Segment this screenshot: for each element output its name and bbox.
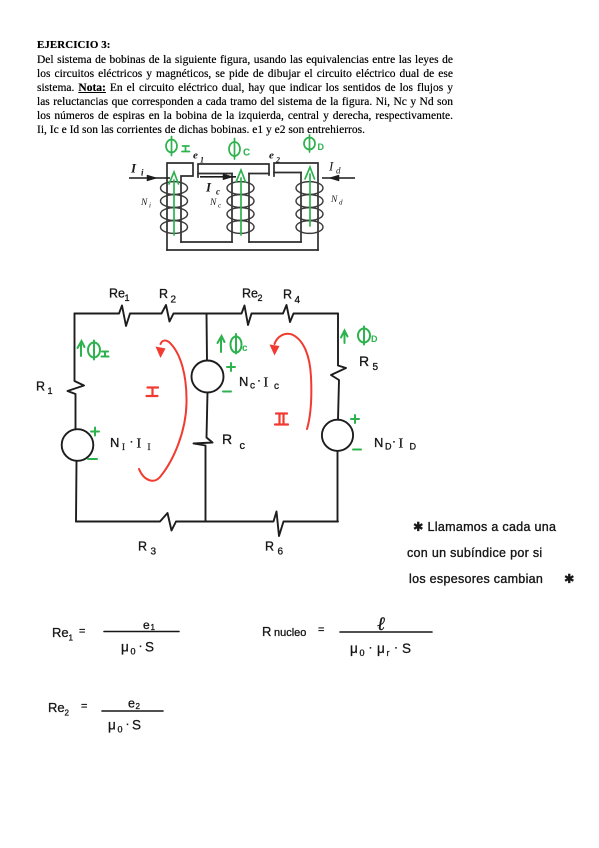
svg-text:c: c	[242, 343, 248, 354]
svg-text:I: I	[264, 376, 269, 391]
svg-text:e: e	[269, 150, 274, 162]
svg-text:·: ·	[369, 640, 373, 654]
svg-text:c: c	[216, 187, 220, 197]
svg-text:R: R	[283, 288, 292, 302]
svg-text:✱ Llamamos a cada una: ✱ Llamamos a cada una	[413, 520, 556, 534]
svg-text:S: S	[145, 640, 154, 655]
svg-text:=: =	[318, 624, 324, 636]
svg-text:1: 1	[48, 386, 53, 396]
svg-text:·: ·	[257, 373, 261, 387]
svg-text:r: r	[387, 648, 390, 658]
svg-text:S: S	[132, 718, 141, 733]
svg-text:N: N	[374, 435, 383, 450]
svg-text:c: c	[274, 381, 279, 392]
svg-text:R: R	[138, 540, 147, 554]
svg-text:2: 2	[171, 295, 177, 306]
svg-text:2: 2	[275, 156, 280, 165]
svg-text:I: I	[130, 161, 137, 176]
svg-text:μ: μ	[377, 641, 385, 656]
svg-text:i: i	[149, 202, 151, 210]
svg-text:0: 0	[131, 647, 136, 657]
svg-text:D: D	[318, 142, 325, 152]
svg-text:·: ·	[126, 717, 130, 731]
svg-text:los espesores cambian: los espesores cambian	[409, 572, 543, 586]
svg-text:·: ·	[139, 639, 143, 653]
svg-text:e: e	[143, 618, 150, 632]
svg-text:I: I	[205, 180, 212, 195]
svg-text:Re: Re	[52, 625, 69, 640]
svg-text:R: R	[359, 353, 369, 369]
svg-text:D: D	[385, 442, 392, 452]
svg-text:Re: Re	[109, 287, 125, 301]
svg-text:·: ·	[394, 640, 398, 654]
svg-text:i: i	[141, 168, 144, 178]
svg-text:C: C	[243, 148, 250, 159]
svg-text:2: 2	[136, 702, 141, 711]
svg-text:N: N	[140, 198, 148, 208]
svg-text:R: R	[265, 540, 274, 554]
svg-text:e: e	[193, 150, 198, 162]
svg-text:1: 1	[200, 156, 204, 165]
svg-text:N: N	[330, 195, 338, 205]
svg-text:N: N	[110, 435, 119, 450]
svg-text:0: 0	[360, 648, 365, 658]
svg-text:2: 2	[258, 293, 263, 303]
svg-text:μ: μ	[108, 718, 116, 733]
svg-text:I: I	[328, 159, 334, 174]
svg-text:=: =	[81, 701, 87, 713]
svg-text:I: I	[148, 442, 151, 452]
svg-text:Re: Re	[242, 287, 258, 301]
svg-text:I: I	[137, 437, 142, 452]
svg-text:·: ·	[392, 434, 396, 448]
svg-text:6: 6	[278, 547, 284, 558]
svg-text:=: =	[79, 626, 85, 638]
svg-text:N: N	[209, 198, 217, 208]
svg-text:R: R	[36, 380, 45, 394]
svg-text:✱: ✱	[564, 572, 575, 586]
svg-text:μ: μ	[350, 641, 358, 656]
svg-text:c: c	[250, 381, 255, 392]
svg-text:nucleo: nucleo	[274, 627, 306, 639]
svg-text:5: 5	[373, 362, 379, 373]
svg-text:R: R	[222, 431, 232, 447]
svg-text:N: N	[239, 374, 248, 389]
svg-text:3: 3	[151, 547, 157, 558]
svg-text:d: d	[339, 199, 343, 207]
svg-text:D: D	[371, 334, 378, 344]
svg-text:·: ·	[130, 434, 134, 448]
svg-text:R: R	[262, 624, 271, 639]
svg-text:D: D	[410, 442, 417, 452]
svg-text:con un subíndice por si: con un subíndice por si	[407, 546, 542, 560]
svg-text:R: R	[159, 287, 168, 301]
svg-text:0: 0	[118, 725, 123, 735]
svg-text:4: 4	[295, 295, 301, 306]
svg-text:1: 1	[69, 634, 74, 643]
svg-text:c: c	[240, 440, 246, 452]
svg-text:2: 2	[65, 709, 70, 718]
svg-text:e: e	[128, 697, 135, 711]
svg-text:I: I	[122, 442, 125, 452]
svg-text:I: I	[399, 437, 404, 452]
svg-text:S: S	[402, 641, 411, 656]
svg-text:c: c	[218, 202, 222, 210]
svg-text:Re: Re	[48, 700, 65, 715]
svg-text:μ: μ	[121, 640, 129, 655]
svg-text:d: d	[336, 166, 341, 176]
svg-text:1: 1	[125, 293, 130, 303]
svg-text:1: 1	[151, 623, 156, 632]
